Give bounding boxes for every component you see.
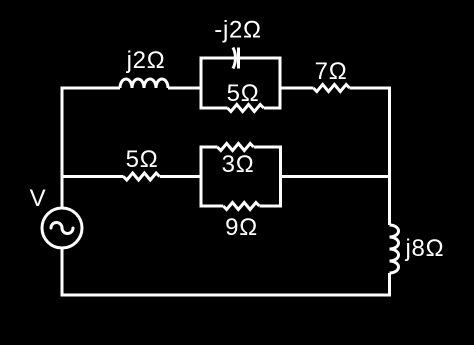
resistor R3 5Ω (middle) [123, 173, 159, 180]
wire L2 down to bottom right corner and bottom wire [62, 248, 390, 295]
resistor R4 3Ω [217, 144, 253, 151]
resistor R2 7Ω [313, 85, 349, 92]
capacitor C1 -j2Ω straight plate [237, 48, 240, 69]
capacitor C1 -j2Ω curved plate [233, 48, 236, 69]
wire R2 to right vertical down to L2 [350, 88, 390, 225]
inductor L1 j2Ω [120, 79, 168, 88]
wire middle: left vertical to R3 [62, 175, 124, 178]
wire top box to R2 [280, 87, 313, 90]
svg-text:V: V [30, 185, 47, 212]
resistor R5 9Ω [223, 203, 259, 210]
svg-text:9Ω: 9Ω [225, 214, 258, 241]
svg-text:5Ω: 5Ω [126, 146, 159, 173]
wire R3 to middle box [160, 175, 201, 178]
wire middle box left side (top-left and bottom-left corners) [201, 147, 223, 206]
resistor R1 5Ω (in top box) [228, 105, 264, 112]
wire top-left: left vertical + top horizontal to L1 [62, 88, 120, 208]
svg-text:j8Ω: j8Ω [405, 235, 445, 262]
voltage source V1 [42, 208, 82, 248]
svg-text:7Ω: 7Ω [315, 58, 348, 85]
wire middle box right side (top-right and bottom-right corners) [254, 147, 281, 206]
svg-text:-j2Ω: -j2Ω [214, 17, 261, 44]
inductor L2 j8Ω [390, 225, 399, 273]
wire middle box to right vertical [281, 175, 390, 178]
svg-text:j2Ω: j2Ω [126, 47, 166, 74]
svg-text:3Ω: 3Ω [222, 151, 255, 178]
svg-text:5Ω: 5Ω [227, 80, 260, 107]
wire top box right side (top-right and bottom-right corners) [239, 58, 281, 108]
wire L1 to top parallel box [168, 87, 201, 90]
wire top box left side (top-left and bottom-left corners) [201, 58, 234, 108]
